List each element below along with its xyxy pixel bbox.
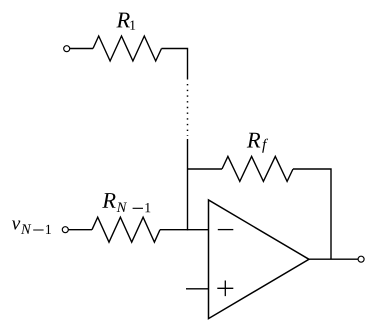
resistor Rf — [222, 156, 293, 181]
wire: input 1 terminal to R1 — [69, 48, 93, 50]
wire: dotted section down to inverting input node — [187, 139, 189, 230]
label Rf — [247, 133, 268, 153]
wire: non-inverting input stub — [186, 288, 209, 290]
label R_{N-1} — [102, 193, 150, 212]
wire: R_{N-1} to op-amp inverting input (through node) — [160, 229, 209, 231]
terminal: output node (open circle) — [358, 256, 364, 262]
wire: op-amp output to terminal — [309, 258, 358, 260]
label v_{N-1} — [12, 220, 51, 234]
wire: Rf to corner and down to output — [293, 169, 331, 259]
resistor R1 — [93, 36, 162, 61]
op-amp plus sign (non-inverting input marker) — [217, 281, 233, 297]
wire: input N-1 terminal to R_{N-1} — [68, 229, 92, 231]
terminal: input node N-1 (open circle) — [62, 227, 68, 233]
resistor R_{N-1} — [92, 217, 160, 242]
op-amp minus sign (inverting input marker) — [218, 229, 234, 231]
op-amp U1 triangle — [209, 200, 310, 319]
wire: feedback branch from inverting node up line to Rf — [188, 168, 223, 170]
dotted wire: omitted input branches — [187, 84, 189, 136]
terminal: input node 1 (open circle) — [64, 46, 70, 52]
wire: R1 to corner and down to dotted section — [162, 49, 188, 80]
label R1 — [116, 13, 135, 30]
